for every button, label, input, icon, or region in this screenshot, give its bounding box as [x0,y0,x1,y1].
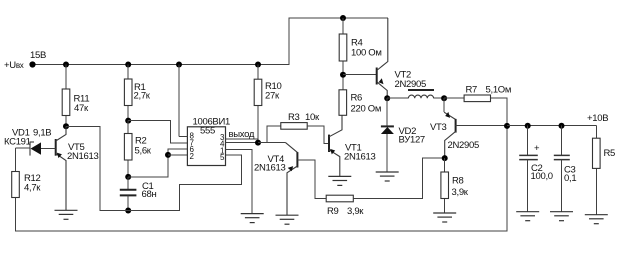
node R4/R6/VT2 base [340,72,346,78]
svg-text:220 Ом: 220 Ом [351,104,382,115]
resistor R9 [326,195,353,202]
svg-text:5,6к: 5,6к [135,146,152,157]
ground R5 [585,215,608,224]
svg-text:4,7к: 4,7к [24,183,41,194]
wire R3 tap [267,126,281,143]
svg-text:ВУ127: ВУ127 [399,135,425,146]
op-amp U1 timer 1006VI1 box [187,127,225,166]
svg-text:R7: R7 [466,85,478,96]
svg-text:2,7к: 2,7к [134,91,151,102]
svg-text:2N1613: 2N1613 [67,151,98,162]
capacitor C1 [120,177,137,211]
svg-text:555: 555 [200,126,215,137]
svg-text:100,0: 100,0 [531,171,553,182]
node +Uvx input terminal [29,61,35,67]
svg-text:2: 2 [190,152,195,161]
resistor R11 [62,89,70,116]
ground VT1 emitter [328,176,351,185]
wire junction to pins 6 and 2 [128,149,187,177]
svg-text:0,1: 0,1 [564,173,576,184]
node rail/R4 junction [340,15,346,21]
wire R2 leads [127,121,129,134]
wire output line [507,125,596,127]
svg-text:R9: R9 [327,206,339,217]
node C3 tap [559,123,565,129]
resistor R5 [593,138,601,168]
svg-text:68н: 68н [142,189,157,200]
svg-text:47к: 47к [74,103,89,114]
svg-text:+Uвх: +Uвх [4,60,24,71]
wire pin2 stub [168,154,187,156]
node R11/VT5 collector [63,123,69,129]
wire R9 to R8 junction [353,158,444,198]
wire output to VT4 collector [258,142,286,144]
svg-text:3,9к: 3,9к [347,206,364,217]
node junction rail/R1 [125,62,131,68]
wire R3 to VT1 base [307,126,329,143]
resistor R6 [339,90,347,116]
svg-text:+10В: +10В [587,113,608,124]
svg-text:VT3: VT3 [430,122,447,133]
node junction rail/R11 [63,62,69,68]
node R2/C1 junction [125,174,131,180]
ground VD2 [376,172,399,181]
inductor L1 [387,90,444,98]
capacitor C3 [554,126,570,212]
node inductor/R7/VT3 [441,95,447,101]
wire R8 leads [444,158,446,172]
node VD2/inductor [384,95,390,101]
svg-text:R5: R5 [604,148,616,159]
ground pin1 [241,214,264,223]
wire C1 bottom to pin5 [128,155,241,211]
transistor VT3 [444,98,507,158]
svg-text:выход: выход [229,129,255,140]
diode VD2 VU127 [381,98,394,172]
ground C2 [516,212,539,221]
svg-text:9,1В: 9,1В [33,128,51,139]
svg-text:R3: R3 [288,112,300,123]
svg-text:2N2905: 2N2905 [448,140,479,151]
diode VD1 zener KC191 [16,142,42,156]
resistor R10 [254,79,262,105]
resistor R12 [12,172,20,198]
node C1 bottom junction [125,208,131,214]
node junction rail/R10 [255,62,261,68]
svg-text:10к: 10к [305,112,320,123]
wire R10 leads [257,65,259,80]
wire R1 leads [127,65,129,80]
node junction rail/pin8 [176,62,182,68]
wire junction to pin7 [128,121,187,143]
node output junction [255,140,261,146]
wire main +15V rail [33,18,389,65]
wire C1 bottom to VT5 collector node [66,126,128,210]
capacitor C2 [519,126,540,212]
wire R6 leads [342,75,344,90]
node R8 junction [442,155,448,161]
svg-text:2N1613: 2N1613 [254,163,285,174]
wire bottom feedback rail [16,126,508,231]
transistor VT1 [329,115,342,176]
node output line left [504,123,510,129]
node C2 tap [525,123,531,129]
svg-text:3,9к: 3,9к [452,187,469,198]
wire R4 leads [342,18,344,34]
resistor R1 [124,79,132,106]
svg-text:15В: 15В [30,50,46,61]
transistor VT4 [287,152,326,215]
svg-text:27к: 27к [265,91,280,102]
ground R8 [433,213,456,222]
node R1/R2 junction [125,118,131,124]
resistor R4 [339,34,347,61]
ground C3 [550,212,573,221]
transistor VT2 [343,18,388,98]
svg-text:КС191: КС191 [4,137,31,148]
resistor R8 [441,172,449,199]
svg-text:5,1Ом: 5,1Ом [486,85,512,96]
svg-text:5: 5 [220,153,225,162]
node pin2 tee [165,152,171,158]
svg-text:R6: R6 [351,93,363,104]
ground VT5 emitter [55,210,78,219]
resistor R7 [464,95,490,102]
wire R12 top lead [15,148,17,171]
svg-text:100 Ом: 100 Ом [351,48,382,59]
ground VT4 emitter [276,215,299,224]
wire R11 leads [65,65,67,90]
resistor R3 [281,123,307,130]
transistor VT5 [56,126,66,210]
resistor R2 [124,134,132,161]
svg-text:R8: R8 [452,176,464,187]
svg-text:2N2905: 2N2905 [395,79,426,90]
svg-text:2N1613: 2N1613 [344,152,375,163]
wire VD1 to VT5 base [41,147,56,149]
wire R5 leads [595,126,597,139]
svg-text:+: + [534,143,540,154]
wire R7 leads [444,97,464,99]
